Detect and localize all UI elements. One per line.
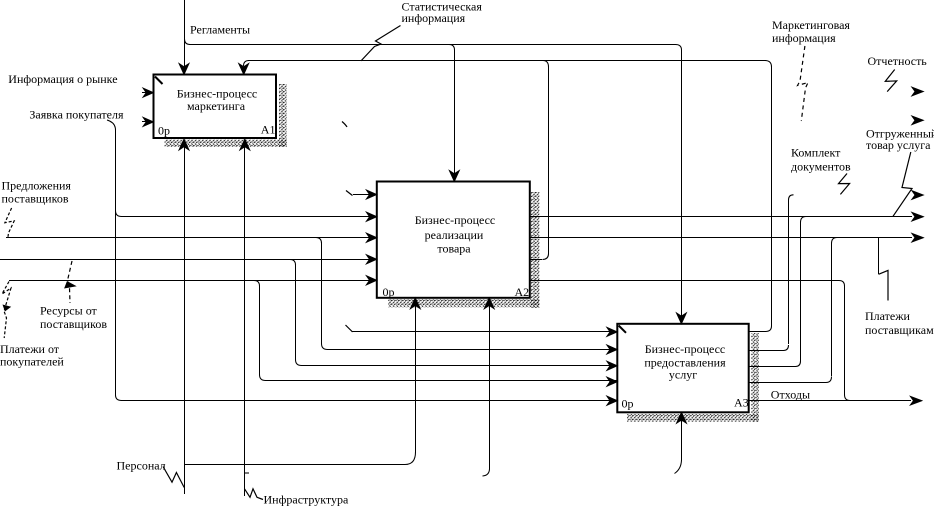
wire: corner down from row y280 at x844 — [839, 281, 845, 287]
wire: branch corner x115 to row y216 — [116, 211, 122, 217]
svg-text:услуг: услуг — [669, 368, 697, 382]
wire: branch corner at x454 from rail y44 — [449, 45, 455, 51]
shadow A3 right — [751, 333, 758, 422]
svg-text:Бизнес-процесс: Бизнес-процесс — [645, 342, 726, 356]
wire: merge corner x832 into row y237 — [832, 238, 838, 244]
wire: Персонал vertical x184 below A1 — [184, 146, 186, 494]
shadow A2 right — [531, 192, 539, 308]
svg-text:информация: информация — [402, 11, 466, 25]
arrowhead into A3 left input3 — [607, 361, 618, 370]
wire: corner x548 to A2 output3 — [543, 254, 549, 260]
svg-text:0р: 0р — [383, 285, 395, 299]
wire: Заявка покупателя lead-in curve — [107, 120, 116, 130]
wire: A3 output3 corner up x801 — [796, 361, 801, 367]
svg-text:товар услуга: товар услуга — [866, 138, 931, 152]
border arrow Отгруженный товар — [912, 191, 924, 200]
svg-text:А3: А3 — [734, 396, 749, 410]
arrowhead into A2 bottom x489 — [484, 298, 494, 309]
wire: corner x295 to row y365 — [296, 360, 302, 366]
wire: stat info branch corner at x548 — [543, 61, 549, 68]
svg-text:Ресурсы от: Ресурсы от — [40, 304, 98, 318]
border arrow Отходы — [910, 396, 922, 405]
leader: Отгруженный товар lightning — [893, 152, 912, 216]
arrowhead into A3 left input4 — [607, 377, 618, 386]
wire: vertical x321 — [321, 243, 323, 344]
wire: row y349 to A3 input2 and A3 output2 — [327, 349, 620, 351]
wire: vertical x832 — [831, 243, 833, 376]
wire: Заявка vertical x115 — [115, 130, 117, 395]
wire: top control rail y44 — [189, 44, 676, 46]
wire: vertical x295 — [295, 265, 297, 360]
wire: corner x771 to A3 output1 — [766, 326, 772, 332]
svg-text:Маркетинговая: Маркетинговая — [772, 18, 850, 32]
border arrow Маркетинговая информация — [912, 116, 924, 125]
wire: corner rail y44 down at x681 to A3 — [676, 45, 682, 51]
svg-text:Платежи: Платежи — [865, 309, 911, 323]
leader: Платежи поставщикам lightning — [879, 270, 889, 300]
leader: Платежи от покупателей lightning — [2, 282, 11, 339]
leader: Инфраструктура squiggle — [245, 489, 264, 500]
wire: A2 input1 short arrow — [353, 194, 376, 196]
wire: stat info rail y61 left corner down to A1 — [244, 61, 250, 67]
arrowhead into A3 bottom mechanism — [677, 412, 687, 423]
wire: vertical x801 — [800, 222, 802, 361]
arrowhead into A1 top Регламенты — [179, 64, 189, 75]
svg-text:Комплект: Комплект — [791, 146, 841, 160]
box A3 Бизнес-процесс предоставления услуг — [617, 324, 748, 413]
svg-text:маркетинга: маркетинга — [187, 99, 246, 113]
wire: row y365 to A3 input3 and A3 output3 — [301, 365, 620, 367]
wire: vertical x771 feedback from A3 output1 — [771, 67, 773, 326]
wire: stub corner at x788 top — [789, 195, 794, 200]
arrowhead into A2 left input1 — [366, 190, 377, 199]
svg-text:Информация о рынке: Информация о рынке — [8, 72, 117, 86]
svg-text:поставщикам: поставщикам — [865, 323, 934, 337]
svg-text:А1: А1 — [261, 123, 276, 137]
tick mark at A2 input1 tail — [346, 191, 353, 196]
arrowhead into A1 left y121 — [143, 117, 154, 126]
wire: Регламенты vertical into A1 top — [184, 0, 186, 67]
arrowhead into A2 left input3 — [366, 233, 377, 242]
wire: Инфраструктура vertical x245 below A1 — [244, 146, 246, 496]
wire: corner y464 up to x415 — [405, 452, 416, 465]
svg-text:информация: информация — [772, 31, 836, 45]
wire: A3 mechanism vertical x681 — [681, 420, 683, 460]
wire: corner x321 to row y349 — [322, 344, 328, 350]
wire: A3 input1 line — [352, 331, 766, 333]
wire: A3 output2 corner up x788 — [784, 345, 789, 351]
leader: Предложения поставщиков lightning — [5, 208, 14, 237]
shadow A1 bottom — [165, 139, 287, 147]
wire: vertical x454 control into A2 top — [454, 50, 456, 174]
leader: Ресурсы от поставщиков dashed — [68, 261, 73, 303]
leader arrowhead Ресурсы — [64, 281, 77, 289]
leader: Отчетность lightning — [885, 70, 896, 92]
svg-text:документов: документов — [791, 160, 851, 174]
wire: merge corner x844 into Отходы row — [845, 395, 851, 401]
box A1 Бизнес-процесс маркетинга — [154, 75, 277, 139]
svg-text:покупателей: покупателей — [0, 355, 64, 369]
arrowhead into A2 left input4 — [366, 255, 377, 264]
wire: row y259 Ресурсы to A2 input4 — [0, 259, 542, 261]
wire: row y380 to A3 input4 and A3 output4 — [265, 380, 620, 382]
wire: vertical x415 into A2 bottom — [415, 306, 417, 452]
svg-text:Отходы: Отходы — [771, 388, 810, 402]
svg-text:Регламенты: Регламенты — [190, 23, 250, 37]
svg-text:Отчетность: Отчетность — [868, 54, 928, 68]
arrowhead into A1 bottom Персонал — [179, 139, 189, 150]
wire: row y216 Заявка to A2 input2 and A2 output1 to border — [121, 216, 912, 218]
border arrow row y237 — [912, 233, 924, 242]
wire: row y280 Платежи от покупателей to A2 input5 — [9, 280, 839, 282]
wire: A1 input stub Заявка покупателя — [142, 121, 152, 123]
arrowhead into A3 left input5 — [607, 396, 618, 405]
arrowhead into A3 left input2 — [607, 345, 618, 354]
arrowhead into A1 bottom Инфраструктура — [240, 139, 250, 150]
wire: merge corner x801 into row y216 — [801, 217, 807, 223]
leader: Комплект документов lightning — [839, 174, 850, 195]
tick mark at A3 input1 tail — [346, 325, 353, 332]
wire: hook at bottom of A3 mechanism — [675, 460, 682, 474]
leader arrowhead Платежи от покупателей — [3, 305, 12, 312]
wire: row y237 Предложения to A2 input3 and A2 output2 to border — [6, 237, 912, 239]
corner mark A3 — [619, 326, 626, 333]
wire: vertical x489 into A2 bottom — [489, 306, 491, 469]
svg-text:Бизнес-процесс: Бизнес-процесс — [415, 213, 496, 227]
wire: A1 input stub Информация о рынке — [142, 92, 152, 94]
wire: branch down x878 from row y237 — [878, 238, 880, 274]
arrowhead into A2 left input5 — [366, 276, 377, 285]
arrowhead into A1 left y92 — [143, 88, 154, 97]
svg-text:реализации: реализации — [425, 228, 484, 242]
wire: vertical x548 from A2 output3 — [548, 67, 550, 254]
svg-text:Персонал: Персонал — [117, 459, 166, 473]
box A2 Бизнес-процесс реализации товара — [377, 182, 530, 298]
border arrow Отчетность — [912, 87, 924, 96]
svg-text:А2: А2 — [515, 285, 530, 299]
wire: branch corner x321 from row y237 — [316, 238, 322, 244]
wire: Регламенты branch corner to top rail — [185, 39, 191, 45]
svg-text:Заявка покупателя: Заявка покупателя — [29, 108, 124, 122]
wire: branch corner x259 from row y280 — [254, 281, 260, 287]
wire: hook at bottom of x489 — [483, 469, 490, 476]
arrowhead into A2 bottom x415 — [410, 298, 420, 309]
wire: stat info rail right corner down at x771 — [765, 61, 772, 68]
wire: vertical x681 control into A3 top — [681, 50, 683, 316]
corner mark A1 — [155, 77, 163, 85]
wire: A3 output4 corner up x832 — [826, 377, 832, 383]
border arrow row y216 — [912, 212, 924, 221]
wire: hook at bottom of x245 — [245, 472, 250, 474]
arrowhead into A3 left input1 — [607, 327, 618, 336]
leader: Персонал squiggle — [163, 467, 184, 488]
arrowhead into A3 top — [676, 313, 686, 324]
svg-text:товара: товара — [437, 242, 471, 256]
wire: vertical x259 — [259, 286, 261, 375]
wire: row y400 to A3 input5 and Отходы to border — [121, 400, 911, 402]
svg-text:0р: 0р — [622, 397, 634, 411]
tick mark near x344 y124 — [342, 122, 347, 128]
shadow A2 bottom — [388, 299, 539, 307]
wire: branch corner x295 from row y259 — [290, 260, 296, 266]
wire: stat info rail y61 — [248, 60, 766, 62]
arrowhead into A1 top Статистическая — [239, 64, 249, 75]
wire: vertical x844 — [844, 286, 846, 395]
svg-text:Инфраструктура: Инфраструктура — [264, 493, 350, 506]
shadow A1 right — [279, 84, 287, 147]
arrowhead into A2 top — [449, 171, 459, 182]
wire: vertical x788 — [788, 200, 790, 344]
svg-text:поставщиков: поставщиков — [2, 192, 69, 206]
leader: Статистическая информация lightning — [361, 26, 401, 61]
arrowhead into A2 left input2 — [366, 212, 377, 221]
wire: Персонал horizontal y464 — [184, 464, 405, 466]
leader: Маркетинговая информация dashed zigzag — [798, 46, 809, 121]
svg-text:поставщиков: поставщиков — [40, 317, 107, 331]
shadow A3 bottom — [627, 414, 759, 422]
wire: corner x115 bottom to row y400 — [116, 395, 122, 401]
svg-text:Предложения: Предложения — [2, 179, 72, 193]
wire: corner x259 to row y380 — [260, 375, 266, 381]
svg-text:0р: 0р — [158, 124, 170, 138]
